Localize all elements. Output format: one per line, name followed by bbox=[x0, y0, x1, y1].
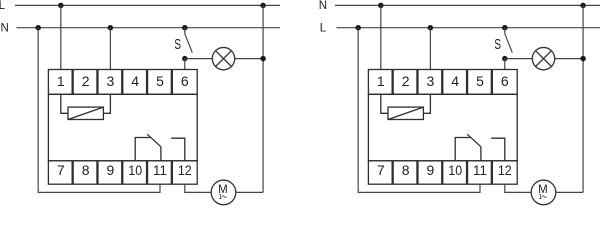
wire motor to right rail (left diagram) bbox=[236, 191, 264, 193]
junction on L line left side (right diagram) bbox=[355, 25, 361, 31]
terminal block 1-6 (left diagram) bbox=[48, 70, 197, 95]
junction lamp on right rail (right diagram) bbox=[580, 56, 586, 62]
terminal block 1-6 (right diagram) bbox=[368, 70, 517, 95]
svg-text:10: 10 bbox=[128, 162, 142, 178]
motor M1 circle (left diagram) bbox=[211, 180, 236, 205]
switch S blade (right diagram) bbox=[505, 34, 513, 53]
svg-text:9: 9 bbox=[107, 162, 115, 178]
relay coil K1 box (right diagram) bbox=[388, 107, 423, 119]
svg-text:11: 11 bbox=[473, 162, 487, 178]
wire switch to lamp (right diagram) bbox=[505, 58, 533, 60]
wire L line (right diagram) bbox=[337, 27, 600, 29]
svg-text:10: 10 bbox=[448, 162, 462, 178]
switch S upper stub (right diagram) bbox=[504, 28, 506, 34]
node switch output junction (right diagram) bbox=[502, 56, 508, 62]
wire L down left side to terminal 11 (right diagram) bbox=[358, 28, 480, 193]
svg-text:9: 9 bbox=[427, 162, 435, 178]
wire lamp to right rail (right diagram) bbox=[555, 58, 583, 60]
svg-text:12: 12 bbox=[498, 162, 512, 178]
switch S blade (left diagram) bbox=[185, 34, 193, 53]
svg-text:6: 6 bbox=[181, 73, 189, 89]
junction on L line right side (left diagram) bbox=[260, 3, 266, 8]
relay coil K1 box (left diagram) bbox=[68, 107, 103, 119]
node switch output junction (left diagram) bbox=[182, 56, 188, 62]
device body outline (left diagram) bbox=[48, 94, 197, 161]
wire switch to terminal 6 (left diagram) bbox=[184, 59, 186, 70]
relay coil K1 leads (right diagram) bbox=[381, 94, 388, 113]
relay coil K1 diagonal (right diagram) bbox=[388, 107, 423, 119]
relay contact terminal 11 lead (left diagram) bbox=[160, 147, 162, 161]
svg-text:1: 1 bbox=[377, 73, 385, 89]
svg-text:3: 3 bbox=[107, 73, 115, 89]
wire lamp to right rail (left diagram) bbox=[235, 58, 263, 60]
wire terminal 12 to motor (right diagram) bbox=[505, 184, 532, 192]
svg-text:8: 8 bbox=[402, 162, 410, 178]
svg-text:3: 3 bbox=[427, 73, 435, 89]
svg-text:5: 5 bbox=[476, 73, 484, 89]
terminal block 7-12 (right diagram) bbox=[368, 161, 517, 184]
svg-text:2: 2 bbox=[402, 73, 410, 89]
lamp E1 circle (right diagram) bbox=[532, 47, 554, 69]
wire right rail down to motor (left diagram) bbox=[262, 5, 264, 192]
lamp E1 cross (right diagram) bbox=[536, 51, 552, 67]
svg-text:2: 2 bbox=[82, 73, 90, 89]
junction on N line right side (right diagram) bbox=[580, 3, 586, 8]
relay contact terminal 11 lead (right diagram) bbox=[480, 147, 482, 161]
wire L to terminal 1 (left diagram) bbox=[60, 5, 62, 69]
motor M1 circle (right diagram) bbox=[531, 180, 556, 205]
svg-text:1: 1 bbox=[218, 192, 222, 201]
wire switch to lamp (left diagram) bbox=[185, 58, 213, 60]
svg-text:1: 1 bbox=[57, 73, 65, 89]
relay contact blade (right diagram) bbox=[467, 134, 481, 147]
lamp E1 cross (left diagram) bbox=[216, 51, 232, 67]
relay contact terminal 12 lead (right diagram) bbox=[491, 138, 505, 161]
wire N to terminal 3 (left diagram) bbox=[109, 28, 111, 70]
junction on N line above terminal 1 (right diagram) bbox=[378, 3, 384, 8]
relay contact terminal 12 lead (left diagram) bbox=[171, 138, 185, 161]
lamp E1 circle (left diagram) bbox=[212, 47, 234, 69]
svg-text:N: N bbox=[1, 23, 9, 35]
svg-text:5: 5 bbox=[156, 73, 164, 89]
junction on N line at switch S (left diagram) bbox=[182, 25, 188, 31]
svg-text:1: 1 bbox=[538, 192, 542, 201]
wire N line (right diagram) bbox=[335, 4, 600, 6]
relay coil K1 leads (left diagram) bbox=[61, 94, 68, 113]
relay contact terminal 10 lead (left diagram) bbox=[135, 138, 150, 161]
svg-text:7: 7 bbox=[57, 162, 65, 178]
svg-text:4: 4 bbox=[131, 73, 139, 89]
wire N down left side to terminal 11 (left diagram) bbox=[38, 28, 160, 193]
wire L to terminal 3 (right diagram) bbox=[429, 28, 431, 70]
svg-text:L: L bbox=[320, 23, 327, 35]
wire terminal 12 to motor (left diagram) bbox=[185, 184, 212, 192]
junction lamp on right rail (left diagram) bbox=[260, 56, 266, 62]
svg-text:S: S bbox=[174, 37, 181, 53]
svg-text:N: N bbox=[319, 0, 327, 12]
svg-text:8: 8 bbox=[82, 162, 90, 178]
junction on N line above terminal 3 (left diagram) bbox=[108, 25, 114, 31]
junction on L line above terminal 1 (left diagram) bbox=[58, 3, 64, 8]
svg-text:6: 6 bbox=[501, 73, 509, 89]
switch S upper stub (left diagram) bbox=[184, 28, 186, 34]
wire N to terminal 1 (right diagram) bbox=[380, 5, 382, 69]
device body outline (right diagram) bbox=[368, 94, 517, 161]
wire N line (left diagram) bbox=[17, 27, 281, 29]
svg-text:11: 11 bbox=[153, 162, 167, 178]
svg-text:4: 4 bbox=[451, 73, 459, 89]
junction on L line at switch S (right diagram) bbox=[502, 25, 508, 31]
wire L line (left diagram) bbox=[15, 4, 280, 6]
svg-text:S: S bbox=[494, 37, 501, 53]
junction on L line above terminal 3 (right diagram) bbox=[428, 25, 434, 31]
relay contact blade (left diagram) bbox=[147, 134, 161, 147]
relay contact terminal 10 lead (right diagram) bbox=[455, 138, 470, 161]
wire motor to right rail (right diagram) bbox=[556, 191, 584, 193]
svg-text:7: 7 bbox=[377, 162, 385, 178]
svg-text:L: L bbox=[0, 0, 6, 12]
junction on N line left side (left diagram) bbox=[35, 25, 41, 31]
wire right rail down to motor (right diagram) bbox=[582, 5, 584, 192]
svg-text:12: 12 bbox=[178, 162, 192, 178]
terminal block 7-12 (left diagram) bbox=[48, 161, 197, 184]
relay coil K1 diagonal (left diagram) bbox=[68, 107, 103, 119]
wire switch to terminal 6 (right diagram) bbox=[504, 59, 506, 70]
